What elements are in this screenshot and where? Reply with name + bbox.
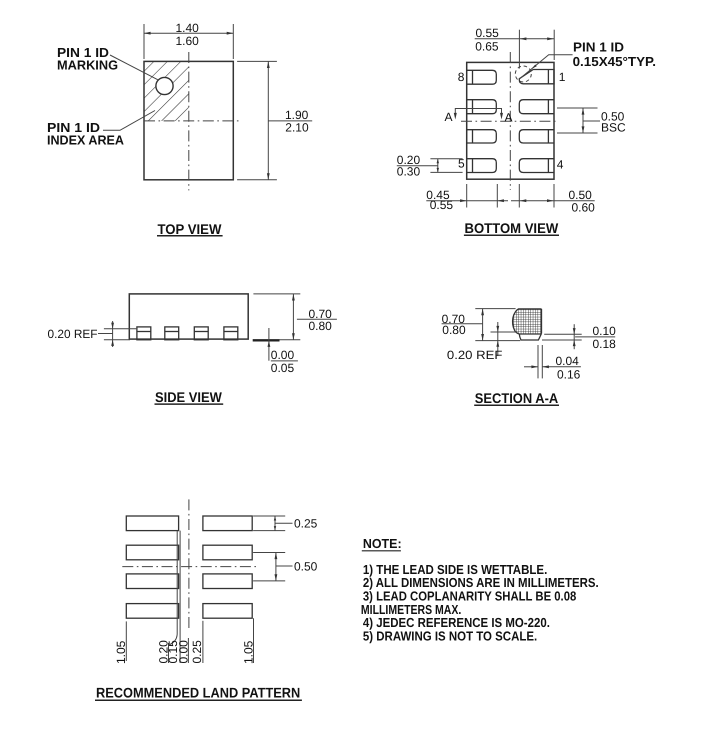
svg-text:BOTTOM VIEW: BOTTOM VIEW [465, 220, 559, 236]
svg-text:BSC: BSC [601, 121, 626, 135]
section dim text 0.04 over 0.16 [556, 354, 581, 381]
extension line 0.20 with jog leader [169, 531, 178, 663]
pin 1 id leader with arrow [520, 55, 573, 79]
pin number 4 [557, 158, 564, 172]
land pattern horizontal centerline [122, 566, 256, 568]
section A-A cutting bracket with arrows [454, 109, 503, 120]
section letter A left [445, 110, 453, 124]
svg-text:0.65: 0.65 [475, 39, 499, 53]
section dim 0.04/0.16 dim line with arrows [524, 365, 581, 368]
pin number 8 [458, 70, 465, 84]
label PIN 1 ID INDEX AREA [47, 120, 125, 148]
section dim 0.70/0.80 arrow line [481, 309, 484, 341]
svg-text:A: A [505, 110, 513, 124]
svg-text:0.25: 0.25 [294, 516, 318, 530]
pin number 5 [458, 157, 465, 171]
note line 1 [363, 562, 547, 577]
label PIN 1 ID 0.15X45 TYP [573, 39, 656, 69]
extension line for 1.05 right [253, 618, 255, 663]
svg-text:0.20 REF: 0.20 REF [447, 348, 503, 362]
bottom view vertical centerline [509, 52, 511, 190]
dimension 0.50 BSC extension lines [557, 108, 598, 133]
land dim text 0.50 [294, 559, 318, 573]
svg-text:TOP VIEW: TOP VIEW [158, 221, 223, 237]
dimension 0.45/0.55 extension lines below [467, 184, 498, 208]
pad 1 top-right with chamfer [519, 70, 554, 84]
extension line 0.25 [202, 621, 204, 663]
land pattern right pad 4 [203, 604, 252, 619]
svg-text:0.25: 0.25 [190, 640, 204, 664]
land dim 0.25 extension lines [253, 516, 285, 531]
pin 1 id dashed circle [515, 66, 531, 82]
side view lead 4 [224, 327, 238, 340]
top view vertical centerline [188, 52, 190, 190]
svg-text:A: A [445, 110, 453, 124]
note line 6 [363, 628, 537, 643]
section dim 0.20 REF arrow line [496, 322, 499, 356]
svg-text:0.80: 0.80 [442, 323, 466, 337]
svg-text:INDEX AREA: INDEX AREA [47, 132, 125, 147]
rotated dimension text 0.00 [176, 640, 190, 664]
svg-text:0.18: 0.18 [593, 337, 617, 351]
svg-text:0.05: 0.05 [271, 361, 295, 375]
svg-text:SIDE VIEW: SIDE VIEW [155, 389, 223, 405]
rotated dimension text 0.15 [166, 640, 180, 664]
dimension 0.45/0.55 dim line with arrows [426, 199, 508, 202]
bottom view body outline [467, 62, 554, 179]
bottom view horizontal centerline section line A-A [461, 120, 556, 122]
title SIDE VIEW [155, 389, 224, 405]
dimension 0.20/0.30 dim line with arrows [437, 159, 439, 173]
land pattern right pad 2 [203, 545, 252, 560]
title SECTION A-A [474, 390, 559, 406]
dimension text 0.20 over 0.30 with fraction line [397, 153, 438, 179]
rotated dimension text 1.05 left [114, 640, 128, 664]
pad 6 left [467, 130, 497, 143]
dimension 1.90/2.10 dim line with arrows [267, 61, 270, 179]
section dim 0.10/0.18 arrow line [573, 324, 576, 349]
svg-text:0.55: 0.55 [476, 26, 500, 40]
svg-text:0.55: 0.55 [430, 198, 454, 212]
land pattern left pad 2 [126, 545, 178, 560]
svg-text:NOTE:: NOTE: [363, 536, 402, 551]
section dim 0.20 REF extension line [491, 331, 517, 333]
land dim 0.50 arrow line and leader [275, 553, 293, 581]
dimension 0.50/0.60 dim line with arrows [511, 199, 595, 202]
pad 7 left [467, 100, 497, 114]
land pattern right pad 3 [203, 574, 252, 589]
dimension text 0.50 BSC [601, 109, 626, 134]
svg-text:1.40: 1.40 [176, 21, 200, 35]
land pattern left pad 4 [126, 604, 178, 619]
extension line 0.15 [179, 531, 181, 663]
dimension text 0.55 over 0.65 [475, 26, 499, 53]
svg-text:0.00: 0.00 [176, 640, 190, 664]
land pattern right pad 1 [203, 516, 252, 531]
rotated dimension text 0.25 [190, 640, 204, 664]
section dim text 0.10 over 0.18 with fraction line [575, 324, 616, 351]
svg-text:8: 8 [458, 70, 465, 84]
side view body outline [129, 294, 248, 339]
svg-text:0.04: 0.04 [556, 354, 580, 368]
dimension text 0.45 over 0.55 [426, 188, 453, 212]
pad 3 right [519, 130, 554, 143]
dimension 0.00/0.05 arrow line [268, 328, 271, 361]
land pattern left pad 3 [126, 574, 178, 589]
top view pin1 hatched index area [144, 62, 189, 121]
note heading NOTE: [362, 536, 402, 551]
extension line for 1.05 left [125, 621, 127, 661]
dimension 0.50 BSC dim line with arrows [582, 108, 600, 133]
dimension 0.55/0.65 extension lines [519, 30, 554, 69]
dimension text 1.90 over 2.10 with fraction line [268, 108, 312, 134]
dimension 0.20 REF extension lines [104, 329, 136, 340]
dimension text 0.20 REF [48, 327, 98, 341]
svg-text:0.16: 0.16 [557, 368, 581, 382]
top view horizontal centerline [144, 120, 241, 122]
dimension 0.20/0.30 extension lines [430, 159, 462, 173]
leader line PIN 1 ID MARKING [110, 55, 158, 80]
top view pin1 id marking circle [156, 77, 173, 94]
land pattern left pad 1 [126, 516, 178, 531]
pad 8 top-left [467, 70, 497, 84]
dimension 1.40/1.60 extension lines [144, 24, 233, 59]
dimension 0.55/0.65 dim line with arrows [475, 37, 555, 40]
dimension 0.20 REF arrow line and leader [98, 321, 114, 347]
dimension text 0.70 over 0.80 with fraction line [297, 307, 337, 333]
svg-text:MARKING: MARKING [57, 58, 118, 73]
pin number 1 [559, 70, 566, 84]
dimension 1.40/1.60 dim line with arrows [144, 32, 233, 35]
side view lead 3 [194, 327, 208, 340]
section dim text 0.70 over 0.80 with fraction line [442, 312, 483, 337]
pad 4 bottom-right [519, 159, 554, 173]
land dim 0.50 extension lines [253, 553, 285, 581]
svg-text:RECOMMENDED LAND PATTERN: RECOMMENDED LAND PATTERN [96, 685, 300, 701]
note line 4 [361, 602, 461, 617]
side view lead 1 [137, 327, 151, 340]
leader line PIN 1 ID INDEX AREA [103, 111, 155, 131]
svg-text:0.60: 0.60 [572, 200, 596, 214]
svg-text:4: 4 [557, 158, 564, 172]
svg-text:0.20 REF: 0.20 REF [48, 327, 98, 341]
svg-text:PIN 1 ID: PIN 1 ID [573, 39, 624, 54]
svg-text:0.50: 0.50 [294, 559, 318, 573]
label PIN 1 ID MARKING [57, 45, 118, 73]
side view lead 2 [165, 327, 179, 340]
title TOP VIEW [157, 221, 223, 237]
svg-text:1.60: 1.60 [176, 34, 200, 48]
land pattern vertical centerline [188, 499, 190, 631]
dimension text 0.00 over 0.05 with fraction line [271, 348, 298, 375]
note line 2 [363, 575, 599, 590]
svg-text:SECTION A-A: SECTION A-A [475, 390, 558, 406]
svg-text:5) DRAWING IS NOT TO SCALE.: 5) DRAWING IS NOT TO SCALE. [363, 628, 537, 643]
title RECOMMENDED LAND PATTERN [95, 685, 302, 701]
section letter A right [505, 110, 513, 124]
section body cross-hatched blob [513, 309, 542, 334]
note line 3 [363, 589, 576, 604]
rotated dimension text 1.05 right [242, 640, 256, 664]
title BOTTOM VIEW [464, 220, 559, 236]
pad 2 right [519, 100, 554, 114]
svg-text:0.30: 0.30 [397, 165, 421, 179]
dimension text 1.40 over 1.60 [176, 21, 200, 48]
top view body outline [144, 61, 233, 179]
svg-text:0.80: 0.80 [309, 319, 333, 333]
dimension 0.50/0.60 extension lines below [519, 184, 554, 208]
side view top extension line [253, 293, 300, 295]
section lead foot outline [519, 334, 541, 341]
section dim 0.04/0.16 extension lines [538, 345, 542, 378]
dimension 1.90/2.10 extension lines [237, 61, 277, 179]
section dim text 0.20 REF [447, 348, 503, 362]
land dim text 0.25 [294, 516, 318, 530]
side view seating plane line [253, 339, 301, 342]
svg-text:2.10: 2.10 [285, 121, 309, 135]
extension line 0.00 centerline [187, 638, 189, 663]
svg-text:1: 1 [559, 70, 566, 84]
svg-text:0.15X45°TYP.: 0.15X45°TYP. [573, 54, 656, 69]
svg-text:1.05: 1.05 [242, 640, 256, 664]
dimension text 0.50 over 0.60 [569, 188, 596, 215]
dimension 0.70/0.80 dim line with arrows [292, 294, 295, 340]
svg-text:1.05: 1.05 [114, 640, 128, 664]
section dim 0.10/0.18 extension lines [542, 334, 582, 340]
pad 5 bottom-left [467, 159, 497, 173]
rotated dimension text 0.20 [156, 640, 170, 664]
section dim 0.70/0.80 extension lines [475, 309, 520, 341]
land dim 0.25 arrow line and leader [274, 516, 293, 531]
note line 5 [363, 615, 550, 630]
